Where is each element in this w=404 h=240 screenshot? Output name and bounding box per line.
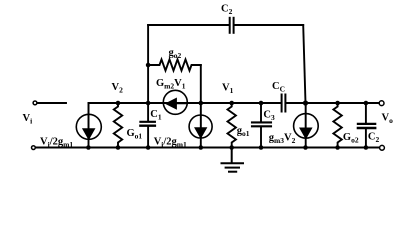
node dot bottom of C1 [146,145,151,150]
wire left branch vertical (corner to bottom rail) [88,103,90,148]
wire right vertical of top loop (output node up) [303,25,305,103]
current source Vi/2gm1 (left, arrow down) [76,114,101,139]
node dot bottom of gm3V2 [303,145,308,150]
wire middle branch vertical (go2 drop to bottom rail) [200,65,202,148]
arrow of left current source [83,104,94,139]
capacitor C2 (top, series) [230,18,234,33]
arrow of middle current source [195,103,206,137]
capacitor CC (series on bus) [282,95,286,112]
node dot top of C1 [146,101,151,106]
resistor go2 (horizontal) [148,59,201,70]
node dot top of Go2 [335,101,340,106]
node dot at V2/top of Go1 [116,101,121,106]
node dot bottom of C2 load [364,145,369,150]
node dot go2 tee [146,63,151,68]
resistor go1 (vertical) [228,103,236,148]
node dot middle branch top [199,101,204,106]
capacitor C1 [140,103,155,148]
capacitor C3 [252,103,271,148]
capacitor C2 (load) [358,103,375,148]
current source Gm2V1 (on bus, arrow left) [163,90,187,114]
arrow of gm3V2 current source [300,103,311,138]
node dot bottom of middle CS [199,145,204,150]
node dot bottom of C3 [259,145,264,150]
wire bus right of CC to output terminal [286,102,379,104]
node dot top of C3 [259,101,264,106]
arrow of Gm2V1 current source [167,99,188,109]
node dot top of go1 [229,101,234,106]
wire bottom ground rail [36,147,379,149]
terminal Vo- (bottom-right open circle) [380,145,385,150]
node dot bottom of go1/ground [229,145,234,150]
terminal Vo+ (top-right open circle) [379,101,384,106]
terminal Vi- (bottom-left open circle) [32,146,36,150]
terminal Vi+ (top-left open circle) [33,101,37,105]
wire from Vi+ terminal [38,102,66,104]
node dot top of C2 load [364,101,369,106]
resistor Go1 (vertical) [114,103,122,148]
node dot bottom of left CS [86,145,91,150]
node dot output junction [303,100,308,105]
current source Vi/2gm1 (middle, arrow down) [189,115,212,138]
ground [222,148,244,172]
node dot bottom of Go2 [335,145,340,150]
node dot bottom of Go1 [116,145,121,150]
resistor Go2 (vertical) [333,103,341,148]
wire left vertical of top loop (node V2 up) [147,25,149,103]
wire main bus (node V2 / V1) [89,102,282,104]
wire top feedback rail [148,24,303,26]
current source gm3V2 (arrow down) [294,114,319,139]
wire output branch vertical (junction to CS) [305,103,307,148]
